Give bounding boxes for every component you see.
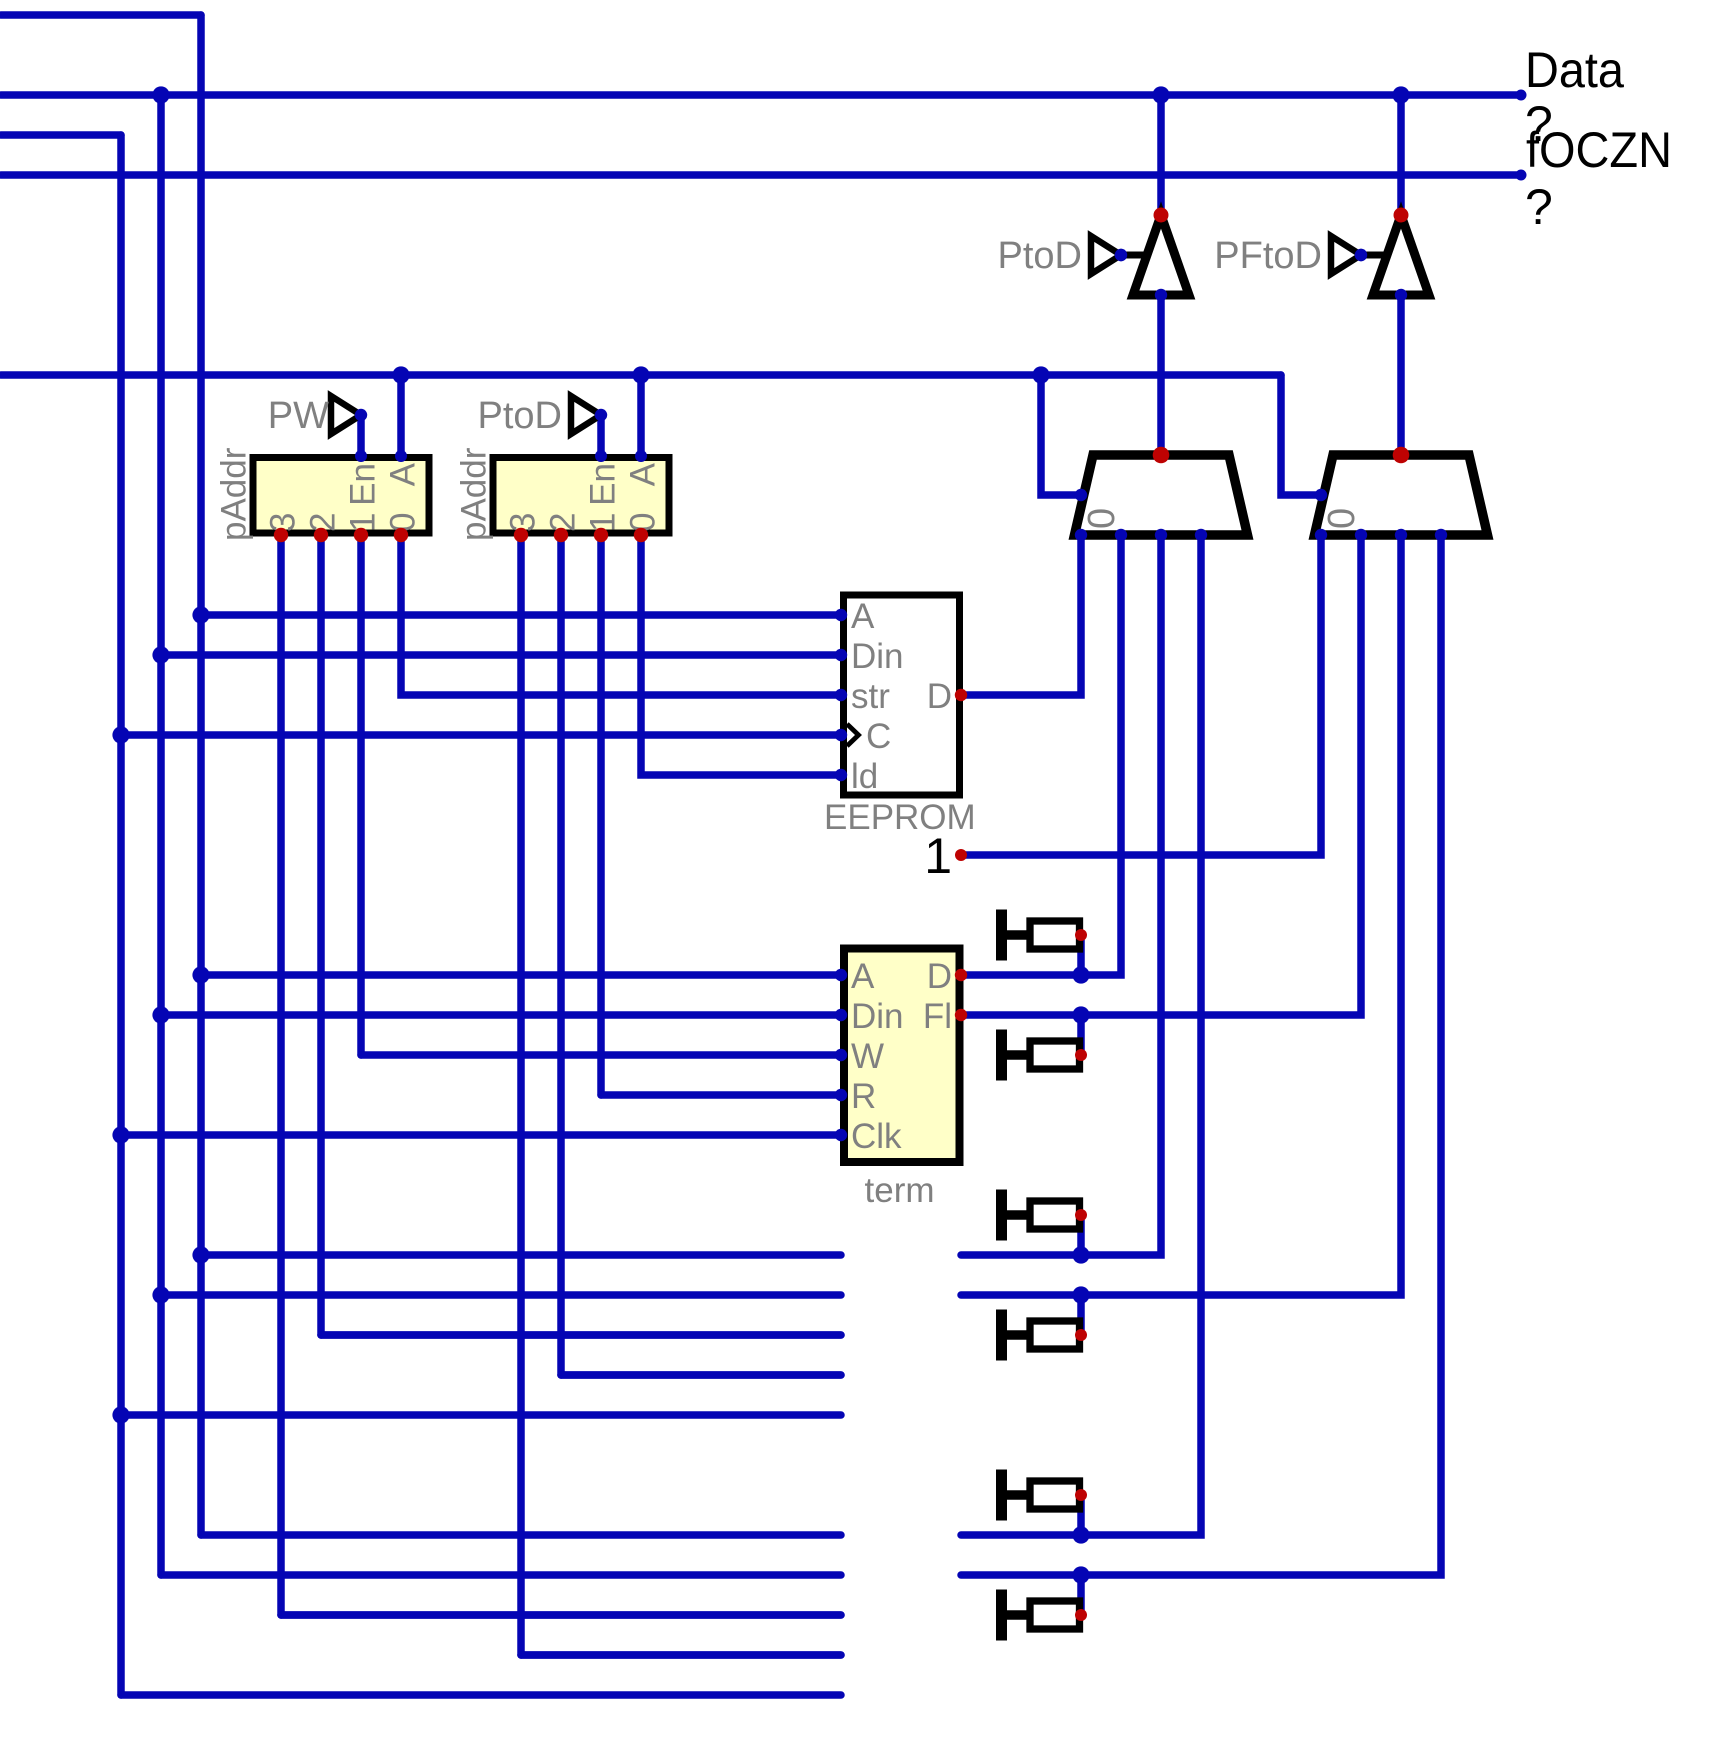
svg-text:A: A [851,597,875,636]
button S3 [996,1190,1087,1241]
junction (1081,1535) [1072,1526,1089,1543]
tunnel PW [268,395,367,437]
wire box1 pin2 down [317,535,325,1335]
svg-text:A: A [851,957,875,996]
subcircuit pAddr 2 [455,447,670,542]
button S2 [996,1030,1087,1081]
button S4 [996,1310,1087,1361]
wire row39 to mux2 in3 [961,535,1441,1575]
svg-text:Din: Din [851,637,904,676]
tunnel PtoD box2 [478,395,608,437]
svg-text:1: 1 [924,828,952,884]
wire button6 stub [1077,1575,1085,1615]
junction (1081,1015) [1072,1006,1089,1023]
constant 1 [924,828,967,884]
svg-text:0: 0 [1081,508,1123,529]
subcircuit term U4 [835,949,967,1211]
wire button2 to term Fl net [1077,1015,1085,1055]
multiplexer M2 [1315,447,1488,542]
wire box2 pin0 to EEPROM ld [641,535,841,775]
wire term D to mux1 in1 [961,535,1121,975]
wire mux2 out to driver2 in [1397,295,1405,455]
wire dangling row42 left [121,1691,841,1699]
tunnel PFtoD driver2 [1214,235,1367,277]
svg-text:D: D [927,957,952,996]
wire vertical x=161 [157,95,165,1575]
wire to EEPROM Din [161,651,841,659]
wire vertical x=201 [197,15,205,1535]
junction (201,1255) [192,1246,209,1263]
wire term Fl to mux2 in1 [961,535,1361,1015]
junction (1081,1255) [1072,1246,1089,1263]
junction (121,1135) [112,1126,129,1143]
wire box2 pin1En to term R [601,1091,841,1099]
wire box1 pin1En down [357,535,365,1055]
wire to term Clk [121,1131,841,1139]
wire box1 pin1En to term W [361,1051,841,1059]
svg-text:pAddr: pAddr [455,447,494,541]
wire row38 to mux1 in3 [961,535,1201,1535]
svg-text:0: 0 [1321,508,1363,529]
wire const1 to mux2 in0 [961,535,1321,855]
wire dangling row33 left [321,1331,841,1339]
svg-text:pAddr: pAddr [215,447,254,541]
svg-text:ld: ld [851,757,878,796]
svg-text:term: term [865,1171,935,1210]
wire Data bus [1,91,1521,99]
junction (121,1415) [112,1406,129,1423]
button S5 [996,1470,1087,1521]
junction (1081,1295) [1072,1286,1089,1303]
junction (641,375) [632,366,649,383]
tunnel PtoD driver1 [998,235,1128,277]
wire dangling row34 left [561,1371,841,1379]
svg-text:Fl: Fl [923,997,952,1036]
wire dangling row31 left [201,1251,841,1259]
input connector fOCZN [1516,122,1673,235]
button S1 [996,910,1087,961]
wire bus to mux2 select [1281,375,1321,495]
wire bus to box2 A [637,375,645,455]
wire dangling row40 left [281,1611,841,1619]
svg-text:A: A [624,462,663,486]
wire to term Din [161,1011,841,1019]
wire box1 pin0 to EEPROM str [401,535,841,695]
junction (161,1295) [152,1286,169,1303]
wire box2 pin3 down [517,535,525,1655]
multiplexer M1 [1075,447,1248,542]
wire net3 [1,131,121,139]
svg-text:Data: Data [1525,42,1624,98]
svg-text:En: En [344,463,383,506]
subcircuit pAddr 1 [215,447,430,542]
junction (121,735) [112,726,129,743]
wire box1 pin2 row [321,1331,841,1339]
wire button5 stub [1077,1495,1085,1535]
wire box1 pin3 down [277,535,285,1615]
wire box1 pin3 row [281,1611,841,1619]
wire row31 to mux1 in2 [961,535,1161,1255]
svg-text:A: A [384,462,423,486]
button S6 [996,1590,1087,1641]
wire fOCZN bus [1,171,1521,179]
wire net0 top [1,11,201,19]
wire dangling row38 left [201,1531,841,1539]
wire row32 to mux2 in2 [961,535,1401,1295]
wire to term A [201,971,841,979]
driver PtoD U1 [1115,208,1189,302]
junction (1041,375) [1032,366,1049,383]
wire button4 stub [1077,1295,1085,1335]
wire box2 pin2 row [561,1371,841,1379]
junction (161,1015) [152,1006,169,1023]
junction (201,975) [192,966,209,983]
wire dangling row39 left [161,1571,841,1579]
svg-text:PW: PW [268,395,329,437]
junction (201,615) [192,606,209,623]
svg-text:fOCZN: fOCZN [1526,122,1672,178]
svg-text:PtoD: PtoD [998,235,1082,277]
wire to EEPROM C [121,731,841,739]
wire driver1 output to Data [1157,95,1165,215]
wire vertical x=121 [117,135,125,1695]
svg-text:?: ? [1525,179,1553,235]
svg-text:D: D [927,677,952,716]
svg-text:PtoD: PtoD [478,395,562,437]
wire PtoD tunnel to box2 En [597,415,605,455]
svg-text:En: En [584,463,623,506]
wire dangling row32 left [161,1291,841,1299]
wire EEPROM D to mux1 in0 [961,535,1081,695]
junction (401,375) [392,366,409,383]
wire driver2 output to Data [1397,95,1405,215]
junction (1401,95) [1392,86,1409,103]
wire PW tunnel to box1 En [357,415,365,455]
wire dangling row35 left [121,1411,841,1419]
svg-text:R: R [851,1077,876,1116]
junction (1161,95) [1152,86,1169,103]
driver PFtoD U2 [1355,208,1429,302]
svg-text:PFtoD: PFtoD [1214,235,1322,277]
junction (1081,1575) [1072,1566,1089,1583]
wire mux1 out to driver1 in [1157,295,1165,455]
wire bus to box1 A [397,375,405,455]
wire box2 pin2 down [557,535,565,1375]
wire box2 pin1En down [597,535,605,1095]
svg-text:Din: Din [851,997,904,1036]
wire button1 to term D net [1077,935,1085,975]
wire select bus y=375 [1,371,1281,379]
wire box2 pin3 row [521,1651,841,1659]
register EEPROM U3 [824,595,976,837]
svg-text:C: C [866,717,891,756]
wire dangling row41 left [521,1651,841,1659]
junction (1081,975) [1072,966,1089,983]
svg-text:EEPROM: EEPROM [824,798,976,837]
svg-text:str: str [851,677,890,716]
wire button3 stub [1077,1215,1085,1255]
svg-text:Clk: Clk [851,1117,902,1156]
junction (161,655) [152,646,169,663]
junction (161,95) [152,86,169,103]
wire bus to mux1 select [1041,375,1081,495]
svg-text:W: W [851,1037,884,1076]
input connector Data [1516,42,1625,152]
wire to EEPROM A [201,611,841,619]
